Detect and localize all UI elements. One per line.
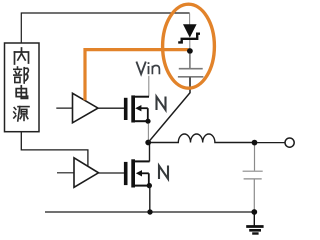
- wire box-bottom to low-side driver: [21, 132, 88, 170]
- wire C1 bottom to switch node: [148, 77, 190, 142]
- wire U1 output to Q1 gate: [98, 107, 125, 109]
- glyph 电: [16, 86, 27, 99]
- wire Q2 source to ground rail: [149, 186, 151, 212]
- node bootstrap (junction dot): [187, 48, 193, 54]
- orange bootstrap supply wire: [85, 50, 189, 101]
- terminal Vout (open circle): [285, 138, 294, 147]
- inductor L1: [151, 134, 252, 143]
- label N (Q2): [159, 166, 168, 180]
- wire U2 input stub: [57, 172, 74, 174]
- glyph 内: [15, 48, 29, 64]
- transistor Q1 N-MOSFET high side: [124, 95, 151, 123]
- label N (Q1): [157, 97, 166, 111]
- driver U2 low-side (buffer triangle): [74, 158, 99, 188]
- driver U1 high-side (buffer triangle): [73, 93, 99, 123]
- node rail under Q2 (junction dot): [147, 209, 152, 214]
- wire switch node to Q2 drain: [149, 143, 151, 162]
- node switch (junction dot): [145, 140, 151, 146]
- block internal power supply (内部电源): [5, 43, 40, 132]
- glyph 部: [14, 67, 29, 83]
- wire Vin to Q1 drain (gray stub): [148, 76, 150, 97]
- capacitor C1 bootstrap: [178, 54, 204, 77]
- wire U1 input stub: [56, 107, 72, 109]
- wire to output terminal: [257, 142, 285, 144]
- wire U2 output to Q2 gate: [99, 172, 125, 174]
- highlight ellipse (orange) around D1/C1: [163, 4, 215, 88]
- node output (junction dot): [252, 140, 258, 146]
- capacitor C2 output: [243, 146, 263, 211]
- ground symbol: [246, 214, 263, 234]
- label Vin: [136, 62, 159, 75]
- glyph 源: [14, 107, 29, 121]
- node rail at ground (junction dot): [251, 209, 257, 215]
- transistor Q2 N-MOSFET low side: [124, 159, 152, 188]
- wire box-top to diode anode: [21, 13, 189, 44]
- diode D1 bootstrap (schottky): [178, 14, 200, 50]
- wire Q1 source to switch node (gray): [147, 124, 149, 141]
- ground rail: [45, 211, 254, 213]
